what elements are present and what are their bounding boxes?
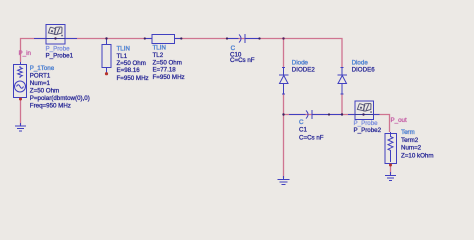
junction dot under P_Probe2 <box>362 113 364 115</box>
svg-text:TLIN: TLIN <box>117 46 130 53</box>
svg-text:P_Probe1: P_Probe1 <box>46 52 74 59</box>
wire DIODE2 branch down to ground <box>283 115 285 179</box>
transmission line TL1 (open stub) <box>102 39 111 73</box>
AC source circle inside PORT1 <box>15 81 26 92</box>
svg-text:P_out: P_out <box>391 117 407 124</box>
svg-text:P_1Tone: P_1Tone <box>30 65 55 72</box>
svg-text:Num=2: Num=2 <box>401 145 422 152</box>
svg-text:F=950 MHz: F=950 MHz <box>153 74 185 81</box>
label DIODE6 block <box>352 60 376 74</box>
power probe P_Probe1 <box>46 25 65 45</box>
resistor zigzag inside Term2 <box>388 134 393 162</box>
svg-text:P_Probe2: P_Probe2 <box>354 127 382 134</box>
open end red dot Term2 bottom <box>389 164 392 167</box>
svg-text:TLIN: TLIN <box>153 45 166 52</box>
wire DIODE6 branch below diode to bottom rail <box>341 94 343 115</box>
svg-text:P_Probe: P_Probe <box>46 45 71 52</box>
port P_1Tone PORT1 <box>14 62 27 99</box>
ground below Term2 <box>385 172 396 181</box>
open end red dot PORT1 bottom <box>19 98 22 101</box>
svg-text:P=polar(dbmtow(0),0): P=polar(dbmtow(0),0) <box>30 95 90 102</box>
label TL1 block <box>117 46 149 83</box>
junction dot TL1 top <box>105 37 107 39</box>
open end red dot TL1 <box>105 72 108 75</box>
junction dot under P_Probe1 <box>54 37 56 39</box>
P_Probe2 pin leads <box>348 114 380 116</box>
svg-text:TL1: TL1 <box>117 53 128 60</box>
svg-text:Term2: Term2 <box>401 137 419 144</box>
svg-text:Freq=950 MHz: Freq=950 MHz <box>30 102 71 109</box>
pin dot TL2 right <box>180 37 182 39</box>
pin dot C1 right <box>328 113 330 115</box>
label C1 block <box>299 119 324 141</box>
svg-text:C: C <box>299 119 304 126</box>
svg-text:E=77.18: E=77.18 <box>153 66 177 73</box>
svg-text:PORT1: PORT1 <box>30 72 51 79</box>
wire DIODE2 branch top <box>283 39 285 69</box>
wire bottom rail to output corner and down to Term2 <box>284 115 390 133</box>
svg-text:C=Cs nF: C=Cs nF <box>230 57 255 64</box>
label TL2 block <box>153 45 185 81</box>
diode DIODE6 <box>338 68 348 95</box>
svg-text:DIODE6: DIODE6 <box>352 67 376 74</box>
meter icon inside P_Probe1 <box>48 27 55 34</box>
diode DIODE2 <box>279 68 289 95</box>
meter icon inside P_Probe2 <box>357 104 364 111</box>
svg-text:Z=50 Ohm: Z=50 Ohm <box>30 87 59 94</box>
junction dot bottom rail at DIODE6 <box>341 113 343 115</box>
svg-text:C=Cs nF: C=Cs nF <box>299 134 324 141</box>
svg-text:Term: Term <box>401 129 415 136</box>
label C10 block <box>230 45 255 64</box>
label DIODE2 block <box>292 60 316 74</box>
ground below DIODE2 branch <box>278 176 290 185</box>
wire main top rail from port corner to DIODE6 corner <box>21 39 343 69</box>
svg-text:Z=10 kOhm: Z=10 kOhm <box>401 152 434 159</box>
label Term2 block <box>401 129 434 159</box>
junction dot bottom rail at DIODE2 <box>282 113 284 115</box>
svg-text:TL2: TL2 <box>153 52 164 59</box>
junction dot DIODE2 top <box>282 37 284 39</box>
transmission line TL2 (series) <box>145 35 183 44</box>
wire DIODE2 branch below diode to bottom rail <box>283 94 285 115</box>
power probe P_Probe2 <box>355 101 374 120</box>
label PORT1 block <box>30 65 90 110</box>
wire port bottom to ground <box>20 99 22 126</box>
wire Term2 bottom to ground <box>390 165 392 175</box>
svg-text:E=98.16: E=98.16 <box>117 67 141 74</box>
svg-text:P_Probe: P_Probe <box>354 120 379 127</box>
resistor zigzag inside PORT1 <box>18 66 23 78</box>
svg-text:C1: C1 <box>299 127 307 134</box>
svg-text:DIODE2: DIODE2 <box>292 67 316 74</box>
capacitor C10 <box>227 34 260 43</box>
capacitor C1 <box>289 110 342 119</box>
pin dot C10 right <box>258 37 260 39</box>
svg-text:F=950 MHz: F=950 MHz <box>117 75 149 82</box>
svg-text:Z=50 Ohm: Z=50 Ohm <box>117 60 146 67</box>
Term Term2 <box>385 132 397 164</box>
P_Probe1 pin leads <box>34 38 77 40</box>
pin dot C10 left <box>226 37 228 39</box>
ground below PORT1 <box>15 123 26 131</box>
svg-text:Num=1: Num=1 <box>30 80 51 87</box>
pin dot TL2 left <box>144 37 146 39</box>
svg-text:P_in: P_in <box>19 50 32 57</box>
